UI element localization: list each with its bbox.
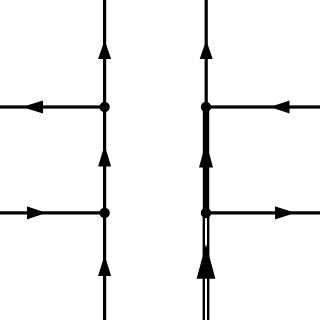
wire: right vertical double line, right strand — [207, 213, 209, 320]
wire: right vertical double line, left strand — [203, 213, 205, 320]
arrowhead: right-pointing arrow on lower-left branch — [27, 206, 47, 219]
wire: upper-left horizontal branch — [0, 105, 105, 108]
wire: upper-right horizontal branch — [206, 105, 320, 108]
node: upper-left junction dot — [99, 102, 109, 112]
wire: lower-right horizontal branch — [206, 211, 320, 214]
arrowhead: up arrow on right line above upper node — [200, 40, 213, 59]
arrowhead: large up arrow on double line below lower node — [197, 244, 216, 279]
arrowhead: left-pointing arrow on upper-left branch — [22, 101, 43, 114]
wire: left vertical line (full height) — [103, 0, 106, 320]
wire: lower-left horizontal branch — [0, 211, 105, 214]
arrowhead: up arrow on right thick segment — [199, 142, 213, 168]
arrowhead: right-pointing arrow on lower-right branch — [275, 206, 296, 219]
arrowhead: up arrow on left line above upper node — [98, 40, 111, 59]
node: lower-left junction dot — [99, 208, 109, 218]
wire: right vertical thick middle segment — [203, 107, 209, 213]
node: lower-right junction dot — [201, 208, 211, 218]
wire: right vertical thin top segment — [205, 0, 208, 107]
arrowhead: up arrow on left line between nodes — [98, 145, 111, 167]
arrowhead: up arrow on left line below lower node — [98, 255, 111, 276]
node: upper-right junction dot — [201, 102, 211, 112]
arrowhead: left-pointing arrow on upper-right branch — [270, 101, 290, 114]
